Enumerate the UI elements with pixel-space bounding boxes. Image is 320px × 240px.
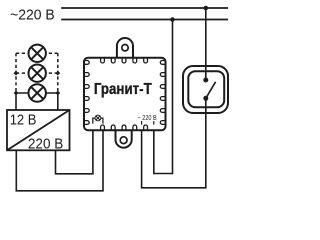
svg-text:220 В: 220 В [28,135,63,152]
device U1 Granit-T body [84,58,166,130]
wire: dashed leads of lamp EL1 [16,52,58,54]
device U1 ~220V input terminals [142,121,154,125]
wire: dashed right riser of optional lamp group [57,53,59,93]
device U1 left edge ribs [84,61,89,125]
switch SA1 blade [206,82,216,99]
wire: lamp row to transformer secondary right [57,93,59,110]
node: left junction row3 [14,91,19,96]
svg-text:~ 220 В: ~ 220 В [138,113,157,122]
wire: solid leads of lamp EL3 [16,92,58,94]
wire: mains bus upper line [61,7,228,9]
node: junction upper bus / switch drop [204,6,209,11]
wire: lamp row to transformer secondary left [15,93,17,110]
switch SA1 top wire stub [205,66,207,80]
wire: switch drop from upper bus [205,8,207,80]
switch SA1 inner plate [188,71,224,107]
wire: neutral from lower bus to device input terminal [154,20,173,174]
device U1 top mounting ear [117,38,133,58]
switch SA1 outer plate [183,66,228,113]
wire: mains bus lower line [61,19,228,21]
wire: transformer primary left to device lamp terminal 2 [16,130,103,191]
node: junction lower bus / neutral drop [170,17,175,22]
node: left junction row2 [14,71,19,76]
transformer T1 diagonal [7,110,70,150]
lamp EL3 [29,84,46,101]
switch SA1 top contact [203,78,208,83]
switch SA1 bottom contact [203,96,208,101]
lamp EL1 (optional) [29,45,46,62]
svg-text:12 В: 12 В [10,111,37,128]
node: right junction row3 [55,91,60,96]
wire: dashed leads of lamp EL2 [16,72,58,74]
wire: switch to device input terminal [142,98,206,188]
wire: transformer primary right to device lamp terminal 1 [56,130,93,174]
wire: dashed left riser of optional lamp group [15,53,17,93]
svg-text:Гранит-Т: Гранит-Т [94,81,152,98]
device U1 top edge ribs [101,58,148,63]
svg-text:~220 В: ~220 В [10,7,55,23]
lamp EL2 (optional) [29,65,46,82]
device U1 lamp output icon [93,115,103,124]
transformer T1 body [7,110,70,150]
switch SA1 bottom wire stub [205,98,207,113]
device U1 bottom mounting ear [116,130,132,148]
device U1 bottom edge ribs [101,125,148,130]
device U1 right edge ribs [160,61,165,125]
node: right junction row2 [55,71,60,76]
